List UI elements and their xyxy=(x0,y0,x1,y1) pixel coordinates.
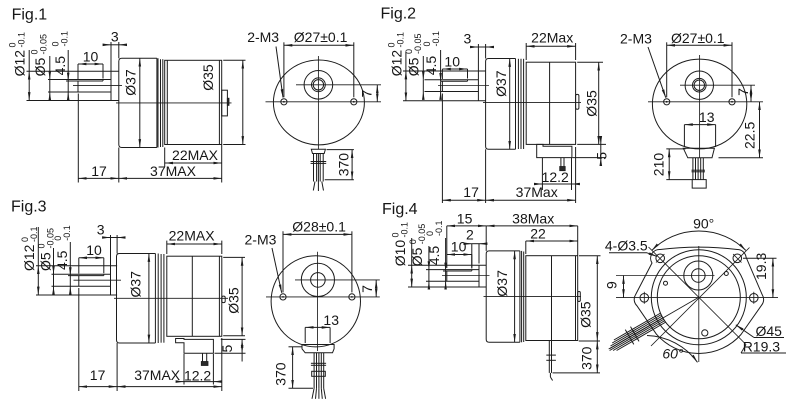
Fig.2 shaft flat end step xyxy=(467,80,469,81)
Fig.4 dim Ø37 line xyxy=(514,251,516,342)
Fig.3 dim Ø37 line xyxy=(148,254,150,344)
Fig.2 dim 22Max line xyxy=(526,45,575,47)
Fig.4 shaft Ø5 top edge + extension xyxy=(426,269,479,271)
svg-text:22MAX: 22MAX xyxy=(169,227,216,243)
Fig.3 front hub boss circle xyxy=(301,263,334,296)
Fig.3 dim 17 line xyxy=(79,386,117,388)
Fig.4 ring line 2 xyxy=(523,252,525,343)
svg-text:3: 3 xyxy=(97,222,105,238)
Fig.2 dim Ø37 label xyxy=(493,70,509,97)
Fig.4 dim Ø5 tolerance xyxy=(408,224,427,245)
svg-text:2-M3: 2-M3 xyxy=(620,31,652,47)
Fig.4 dim 4.5 label xyxy=(426,246,442,266)
Fig.2 front hole centerline horizontal xyxy=(648,101,763,103)
Fig.4 wire crimp ticks xyxy=(546,354,556,356)
Fig.1 shaft tip face xyxy=(77,81,79,92)
svg-text:9: 9 xyxy=(604,281,620,289)
Fig.2 boss Ø12 top edge + extension xyxy=(403,70,486,72)
Fig.3 front lead wires xyxy=(311,353,326,399)
Fig.2 dim 4.5 line xyxy=(440,50,442,81)
Fig.2 dim 22.5 line xyxy=(759,102,761,158)
Fig.4 front wire axis line xyxy=(610,297,699,348)
Fig.3 dim Ø5 tolerance xyxy=(37,228,56,249)
Fig.2 dim Ø35 label xyxy=(584,90,600,117)
svg-text:Ø37: Ø37 xyxy=(127,271,143,298)
Fig.1 front face outline xyxy=(273,60,364,145)
svg-text:Fig.3: Fig.3 xyxy=(11,198,47,215)
Fig.2 shaft flat edge + extension xyxy=(441,80,468,82)
Fig.2 dim 4.5 tolerance xyxy=(422,31,441,47)
Fig.4 dim Ø5 line xyxy=(428,246,430,270)
Fig.4 body centerline xyxy=(484,296,582,298)
svg-text:22MAX: 22MAX xyxy=(172,147,219,163)
Fig.4 front diagonal centerline TL-BR xyxy=(649,247,747,345)
Fig.1 dim Ø5 tolerance xyxy=(30,34,49,55)
Fig.2 dim 13 ext lines xyxy=(683,125,685,147)
Fig.4 front flange outline xyxy=(634,247,763,353)
Fig.1 ring line 1 xyxy=(157,58,159,147)
Fig.2 dim Ø27 ext lines xyxy=(666,42,668,97)
svg-text:37Max: 37Max xyxy=(516,184,558,200)
Fig.2 front plug xyxy=(692,180,706,189)
Fig.2 dim 12.2 line xyxy=(534,183,542,185)
Fig.4 dim 4.5 tolerance xyxy=(425,220,444,236)
Fig.3 dim 5 ext lines xyxy=(221,338,246,340)
Fig.4 dim Ø10 label xyxy=(392,240,408,267)
Fig.1 body centerline xyxy=(116,102,232,104)
Fig.1 dim Ø27 line xyxy=(284,44,354,46)
svg-text:Ø35: Ø35 xyxy=(584,90,600,117)
Fig.3 shaft tip face xyxy=(78,276,80,287)
Fig.2 dim Ø35 ext lines xyxy=(577,61,603,63)
svg-text:Ø27±0.1: Ø27±0.1 xyxy=(294,29,348,45)
Fig.3 dim Ø37 label xyxy=(127,271,143,298)
svg-text:13: 13 xyxy=(699,109,715,125)
svg-text:Ø5: Ø5 xyxy=(38,252,54,271)
Fig.3 dim 7 label xyxy=(359,285,375,293)
Fig.2 gearbox housing Ø37 xyxy=(486,59,516,150)
Fig.4 front bottom small hole xyxy=(702,330,708,336)
Fig.1 dim 22MAX ext lines xyxy=(164,148,166,168)
Fig.2 boss left face xyxy=(477,71,479,101)
Fig.3 can right face inner line xyxy=(218,256,220,336)
svg-text:-0.1: -0.1 xyxy=(62,225,72,241)
Fig.4 dim 15 ext lines xyxy=(446,226,448,268)
Fig.3 dim 4.5 label xyxy=(54,250,70,270)
Fig.1 shaft flat edge + extension xyxy=(66,80,103,82)
Fig.1 front hub centerline horizontal xyxy=(296,84,381,86)
Fig.1 dim 370 ext lines xyxy=(327,149,354,151)
Fig.2 dim 210 label xyxy=(650,153,666,177)
Fig.1 dim 7 line xyxy=(376,85,378,102)
Fig.1 terminal tab xyxy=(222,90,228,116)
Fig.4 dim Ø35 label xyxy=(577,301,593,328)
svg-text:Ø5: Ø5 xyxy=(406,57,422,76)
Fig.3 dim 17/37MAX ext lines xyxy=(78,288,80,391)
Fig.4 front lead wire bundle xyxy=(609,313,666,351)
Fig.2 dim Ø5 line xyxy=(422,56,424,80)
Fig.2 front vertical centerline xyxy=(699,55,701,158)
svg-text:-0.1: -0.1 xyxy=(60,31,70,47)
Fig.1 dim 4.5 label xyxy=(52,56,68,76)
Fig.3 connector housing xyxy=(176,339,214,354)
Fig.4 dim 19.3 label xyxy=(753,253,769,280)
Fig.4 shaft tip face xyxy=(446,271,448,281)
Fig.1 dim 370 line xyxy=(351,150,353,180)
svg-text:Fig.1: Fig.1 xyxy=(12,7,48,24)
Fig.3 dim Ø5 label xyxy=(38,252,54,271)
Fig.3 dim 12.2 ext lines xyxy=(183,354,185,385)
svg-text:Ø37: Ø37 xyxy=(493,70,509,97)
Fig.1 dim 10 line xyxy=(78,63,103,65)
Fig.1 dim Ø5 label xyxy=(32,58,48,77)
svg-text:-0.1: -0.1 xyxy=(400,222,410,238)
Fig.4 dim 90° arc xyxy=(652,231,746,250)
Fig.4 4-Ø3.5 leader xyxy=(609,252,647,254)
svg-text:17: 17 xyxy=(91,163,107,179)
Fig.4 boss Ø10 bottom edge + extension xyxy=(408,286,486,288)
Fig.3 ring line 3 xyxy=(163,254,165,343)
Fig.2 dim 17/37Max ext lines xyxy=(441,94,443,204)
Fig.1 dim 22MAX line xyxy=(165,162,222,164)
Fig.2 boss Ø12 bottom edge + extension xyxy=(403,100,486,102)
Fig.1 dim 4.5 line xyxy=(67,50,69,81)
Fig.1 dim Ø37 label xyxy=(122,69,138,96)
svg-text:-0.1: -0.1 xyxy=(434,220,444,236)
Fig.4 front hole top-left xyxy=(656,254,665,263)
Fig.1 lead-wire block xyxy=(311,149,325,153)
Fig.4 Ø45 leader xyxy=(754,337,784,339)
svg-text:Ø10: Ø10 xyxy=(392,240,408,267)
Fig.4 dim Ø37 label xyxy=(494,270,510,297)
svg-text:-0.1: -0.1 xyxy=(431,31,441,47)
Fig.2 front hub boss circle xyxy=(685,71,713,99)
Fig.4 dim Ø35 ext lines xyxy=(579,255,601,257)
svg-text:Ø35: Ø35 xyxy=(577,301,593,328)
Fig.4 front diagonal centerline TR-BL xyxy=(651,248,750,347)
Fig.1 dim Ø12 tolerance xyxy=(8,32,27,48)
Fig.3 dim Ø5 line xyxy=(53,248,55,274)
Fig.3 body centerline xyxy=(114,297,228,299)
Fig.1 dim 17 line xyxy=(78,177,119,179)
Fig.3 front vertical centerline xyxy=(317,252,319,351)
Fig.2 connector pin xyxy=(560,158,562,167)
Fig.4 front body circle Ø45 xyxy=(651,250,746,345)
Fig.2 dim Ø12 tolerance xyxy=(387,32,406,48)
Fig.4 dim 10 ext line xyxy=(471,255,473,269)
Fig.4 can right face inner line xyxy=(575,256,577,341)
Fig.1 2-M3 leader xyxy=(276,47,283,98)
Fig.2 front connector housing xyxy=(683,148,714,158)
svg-text:370: 370 xyxy=(578,346,594,370)
svg-text:12.2: 12.2 xyxy=(542,169,569,185)
Fig.4 motor can Ø35 xyxy=(526,256,578,341)
Fig.4 dim 19.3 ext line xyxy=(743,257,777,259)
svg-text:19.3: 19.3 xyxy=(753,253,769,280)
Fig.3 front hole centerline horizontal xyxy=(266,296,380,298)
Fig.2 can seam line xyxy=(549,62,551,144)
Fig.3 dim 37MAX line xyxy=(117,386,222,388)
Fig.4 dim 370 ext lines xyxy=(579,340,600,342)
Fig.2 dim Ø35 line xyxy=(598,62,600,144)
Fig.2 front hub centerline horizontal xyxy=(680,84,755,86)
svg-text:37MAX: 37MAX xyxy=(150,163,197,179)
svg-text:370: 370 xyxy=(273,362,289,386)
svg-text:10: 10 xyxy=(444,53,460,69)
svg-text:13: 13 xyxy=(323,312,339,328)
Fig.4 front gearbox cover circle xyxy=(657,256,740,339)
svg-text:4.5: 4.5 xyxy=(52,56,68,76)
svg-text:Ø5: Ø5 xyxy=(409,247,425,266)
Fig.3 rear bearing bump xyxy=(222,296,225,303)
Fig.3 shaft axis centerline xyxy=(74,279,122,281)
Fig.3 dim Ø12 tolerance xyxy=(20,226,39,242)
Fig.1 dim Ø12 line xyxy=(28,50,30,71)
svg-text:Ø12: Ø12 xyxy=(12,50,28,77)
Fig.3 boss Ø12 top edge + extension xyxy=(36,265,117,267)
Fig.2 front left screw hole xyxy=(664,99,670,105)
Fig.3 dim 10 line xyxy=(79,257,104,259)
Fig.3 dim 4.5 line xyxy=(69,242,71,276)
Fig.1 dim Ø5 line xyxy=(49,56,51,80)
Fig.2 dim 5 label xyxy=(594,152,610,160)
Fig.1 front hole centerline horizontal xyxy=(266,101,382,103)
Fig.2 dim Ø5 label xyxy=(406,57,422,76)
Fig.4 dim 38Max ext line xyxy=(577,226,579,256)
Fig.4 front rivet left xyxy=(664,281,668,285)
Fig.4 shaft flat edge + extension xyxy=(443,270,472,272)
svg-text:10: 10 xyxy=(86,242,102,258)
Fig.1 front left screw hole xyxy=(281,99,287,105)
Fig.1 boss Ø12 bottom edge + extension xyxy=(27,100,119,102)
svg-text:Ø12: Ø12 xyxy=(21,244,37,271)
Fig.4 dim 370 label xyxy=(578,346,594,370)
Fig.4 boss Ø10 top edge + extension xyxy=(408,264,486,266)
Fig.1 front vertical centerline xyxy=(317,56,319,150)
Fig.2 body centerline xyxy=(483,102,581,104)
Fig.3 dim 10 ext lines xyxy=(78,258,80,274)
svg-text:-0.1: -0.1 xyxy=(17,32,27,48)
Fig.4 dim 4.5 line xyxy=(445,238,447,271)
Fig.4 dim 10 line xyxy=(447,254,472,256)
svg-text:7: 7 xyxy=(359,90,375,98)
Fig.3 ring line 2 xyxy=(160,254,162,343)
Fig.1 can right face inner line xyxy=(218,60,220,144)
Fig.1 shaft flat end step xyxy=(102,80,104,82)
Fig.2 dim 5 line xyxy=(600,137,602,144)
svg-text:Ø27±0.1: Ø27±0.1 xyxy=(671,30,725,46)
svg-text:Fig.2: Fig.2 xyxy=(381,5,417,22)
svg-text:22: 22 xyxy=(530,226,546,242)
Fig.1 dim Ø35 label xyxy=(200,64,216,91)
svg-text:7: 7 xyxy=(359,285,375,293)
Fig.4 dim 370 line xyxy=(596,341,598,373)
Fig.4 dim 9 line xyxy=(623,276,625,298)
Fig.2 front lead wires xyxy=(692,158,706,180)
Fig.1 terminal pin xyxy=(227,98,229,105)
Fig.3 dim 5 label xyxy=(219,345,235,353)
Fig.4 dim 22 ext line xyxy=(525,241,527,254)
Fig.4 shaft Ø5 bottom edge + extension xyxy=(426,280,479,282)
Fig.2 shaft Ø5 top edge + extension xyxy=(425,79,479,81)
Fig.1 boss Ø12 top edge + extension xyxy=(27,70,119,72)
Fig.4 lead wire xyxy=(548,341,550,373)
svg-text:Ø37: Ø37 xyxy=(494,270,510,297)
Fig.3 dim 370 line xyxy=(292,347,294,388)
Fig.3 shaft flat end step xyxy=(103,274,105,275)
svg-text:4-Ø3.5: 4-Ø3.5 xyxy=(605,237,648,253)
Fig.4 gearbox housing Ø37 xyxy=(486,251,520,342)
Fig.1 front right screw hole xyxy=(351,99,357,105)
svg-text:2-M3: 2-M3 xyxy=(247,29,279,45)
Fig.2 front right screw hole xyxy=(729,99,735,105)
Fig.4 dim 15 line xyxy=(447,225,486,227)
svg-text:Ø35: Ø35 xyxy=(225,287,241,314)
Fig.1 dim 7 label xyxy=(359,90,375,98)
Fig.4 shaft flat end step xyxy=(471,270,473,271)
Fig.1 dim 10 ext lines xyxy=(77,64,79,79)
Fig.1 ring line 2 xyxy=(160,59,162,147)
Fig.2 dim 37Max line xyxy=(486,199,576,201)
svg-text:15: 15 xyxy=(457,210,473,226)
Fig.3 dim 13 line xyxy=(305,326,330,328)
Fig.3 front face outline xyxy=(271,256,360,347)
svg-text:12.2: 12.2 xyxy=(184,367,211,383)
svg-text:38Max: 38Max xyxy=(512,211,554,227)
Fig.3 ring line 1 xyxy=(157,254,159,344)
Fig.2 front face outline xyxy=(652,59,746,149)
Fig.4 dim Ø10 tolerance xyxy=(391,222,410,238)
Fig.1 front hub boss circle xyxy=(304,71,333,100)
svg-text:3: 3 xyxy=(111,29,119,45)
Fig.2 dim 10 ext lines xyxy=(441,69,443,79)
Fig.1 shaft Ø5 top edge + extension xyxy=(48,79,111,81)
Fig.3 2-M3 leader xyxy=(272,248,282,293)
Fig.4 dim 22 line xyxy=(526,240,578,242)
Fig.2 dim 17 line xyxy=(442,199,485,201)
Fig.2 dim 210 ext lines xyxy=(666,148,685,150)
Fig.3 front connector housing xyxy=(302,345,334,353)
Fig.1 dim Ø35 ext lines xyxy=(223,59,245,61)
Fig.4 front rivet right xyxy=(724,272,728,276)
Fig.3 dim Ø35 label xyxy=(225,287,241,314)
Fig.3 dim 3 line xyxy=(103,237,111,239)
Fig.4 dim 2 line xyxy=(464,243,472,245)
Fig.1 dim 17/37MAX ext lines xyxy=(77,94,79,183)
svg-text:Ø5: Ø5 xyxy=(32,58,48,77)
Fig.1 dim Ø27 ext lines xyxy=(283,42,285,97)
svg-text:17: 17 xyxy=(90,367,106,383)
Fig.4 rear bearing bump xyxy=(578,292,581,302)
svg-text:210: 210 xyxy=(650,153,666,177)
Fig.4 dim 38Max line xyxy=(486,225,578,227)
svg-text:Ø45: Ø45 xyxy=(756,323,783,339)
Fig.3 dim 13 ext lines xyxy=(304,327,306,343)
svg-text:-0.05: -0.05 xyxy=(39,34,49,55)
Fig.3 boss Ø12 bottom edge + extension xyxy=(36,294,117,296)
Fig.2 motor can Ø35 xyxy=(526,62,575,144)
Fig.4 front vertical centerline xyxy=(698,246,700,362)
Fig.1 front shaft circle xyxy=(312,78,326,92)
svg-text:3: 3 xyxy=(464,30,472,46)
Fig.3 shaft flat edge + extension xyxy=(68,275,104,277)
Fig.2 dim Ø12 label xyxy=(388,50,404,77)
Fig.4 R19.3 leader underline xyxy=(741,352,786,354)
svg-text:7: 7 xyxy=(735,88,751,96)
svg-text:Ø12: Ø12 xyxy=(388,50,404,77)
svg-text:4.5: 4.5 xyxy=(423,56,439,76)
Fig.1 dim Ø37 line xyxy=(139,58,141,147)
svg-text:22Max: 22Max xyxy=(531,29,573,45)
Fig.2 rear bearing bump xyxy=(576,94,579,109)
Fig.1 dim 3 ext lines xyxy=(110,42,112,71)
Fig.3 can seam line xyxy=(191,256,193,336)
Fig.2 dim Ø27 line xyxy=(667,44,732,46)
svg-text:5: 5 xyxy=(594,152,610,160)
Fig.1 can crimp line xyxy=(166,60,168,144)
Fig.2 connector housing xyxy=(537,144,572,157)
Fig.1 gearbox housing Ø37 xyxy=(119,58,157,147)
Fig.3 boss left face xyxy=(110,266,112,295)
Fig.2 shaft axis centerline xyxy=(438,85,489,87)
Fig.2 dim 3 line xyxy=(470,46,478,48)
Fig.2 dim 22Max ext lines xyxy=(525,43,527,60)
Fig.4 boss left face xyxy=(478,265,480,287)
svg-text:Fig.4: Fig.4 xyxy=(382,201,418,218)
Fig.4 dim Ø5 label xyxy=(409,247,425,266)
Fig.1 boss left face xyxy=(110,71,112,100)
Fig.3 dim 7 line xyxy=(375,280,377,297)
Fig.2 dim 10 line xyxy=(442,68,467,70)
svg-text:90°: 90° xyxy=(693,216,714,232)
Fig.2 dim Ø12 line xyxy=(405,52,407,71)
Fig.4 front horizontal centerline xyxy=(616,297,778,299)
svg-text:2: 2 xyxy=(466,226,474,242)
Fig.3 dim 370 label xyxy=(273,362,289,386)
Fig.3 dim Ø12 label xyxy=(21,244,37,271)
Fig.3 shaft Ø5 bottom edge + extension xyxy=(52,285,111,287)
Fig.1 dim 370 label xyxy=(335,153,351,177)
Fig.3 shaft Ø5 top edge + extension xyxy=(52,273,111,275)
Fig.3 dim 22MAX ext lines xyxy=(166,241,168,254)
Fig.2 dim 13 line xyxy=(684,124,715,126)
Fig.4 dim Ø35 line xyxy=(596,256,598,341)
Fig.3 dim Ø35 line xyxy=(241,257,243,335)
Fig.4 front hub centerline horizontal xyxy=(616,275,715,277)
Fig.4 front hole right xyxy=(750,294,759,303)
Fig.4 dim 19.3 line xyxy=(772,258,774,297)
Fig.4 front shaft circle xyxy=(692,269,706,283)
Fig.3 dim Ø35 ext lines xyxy=(223,256,245,258)
Fig.2 crimp ring lines xyxy=(518,59,523,149)
Fig.2 front shaft inner circle xyxy=(694,80,704,90)
Fig.2 dim 12.2 ext lines xyxy=(541,158,543,190)
Fig.3 gearbox housing Ø37 xyxy=(117,254,156,344)
Fig.3 dim Ø28 line xyxy=(283,233,352,235)
Fig.3 dim 12.2 line xyxy=(176,381,184,383)
Fig.2 dim 22.5 label xyxy=(742,122,758,149)
svg-text:Ø35: Ø35 xyxy=(200,64,216,91)
Fig.4 ring line 1 xyxy=(521,251,523,342)
svg-text:-0.1: -0.1 xyxy=(29,226,39,242)
Fig.4 shaft axis centerline xyxy=(442,275,490,277)
Fig.2 dim 4.5 label xyxy=(423,56,439,76)
Fig.4 dim Ø10 line xyxy=(411,238,413,265)
svg-text:60°: 60° xyxy=(662,346,684,362)
Fig.4 can seam line xyxy=(551,256,553,341)
svg-text:22.5: 22.5 xyxy=(742,122,758,149)
Fig.3 motor can Ø35 xyxy=(167,256,222,336)
